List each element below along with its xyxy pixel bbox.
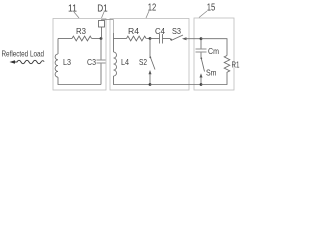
svg-text:L4: L4 — [121, 57, 129, 67]
capacitor C4 — [150, 38, 160, 40]
svg-text:Sm: Sm — [206, 67, 217, 77]
wire: box12 bottom — [114, 76, 151, 85]
wire to junction — [92, 38, 101, 40]
wire to junction — [146, 38, 150, 40]
node junction box15 bottom — [200, 83, 203, 86]
svg-text:S3: S3 — [172, 26, 181, 36]
resistor R4 — [127, 36, 147, 41]
box 15 — [194, 18, 234, 90]
diode D1 — [101, 27, 103, 39]
svg-text:C4: C4 — [155, 26, 165, 36]
wire: bottom link box12 to box15 — [150, 84, 201, 86]
leader 12 — [146, 11, 149, 18]
box 12 — [110, 19, 189, 91]
node junction box15 top — [200, 37, 203, 40]
svg-text:S2: S2 — [139, 57, 147, 67]
inductor L4 — [113, 39, 115, 53]
wire: box11 bottom — [58, 77, 101, 84]
leader 11 — [74, 12, 79, 18]
leader 15 — [199, 11, 207, 18]
wire: box15 top to R1 corner — [201, 39, 227, 56]
capacitor C3 — [100, 39, 102, 60]
node junction box11 — [100, 37, 103, 40]
wire: box15 bottom — [201, 72, 227, 85]
svg-text:15: 15 — [207, 2, 216, 13]
wire: box12 top wire — [114, 38, 127, 40]
switch S3 — [170, 39, 172, 41]
resistor R3 — [72, 36, 92, 41]
svg-text:R4: R4 — [128, 26, 139, 36]
svg-text:C3: C3 — [87, 57, 96, 67]
switch Sm — [200, 57, 202, 59]
resistor R1 — [224, 56, 230, 73]
reflected-wave arrow — [14, 60, 44, 63]
svg-text:11: 11 — [68, 3, 77, 14]
svg-text:L3: L3 — [63, 57, 71, 67]
svg-text:Cm: Cm — [208, 46, 219, 56]
wire: box11 top wire — [58, 38, 72, 40]
svg-text:D1: D1 — [97, 3, 108, 14]
box 11 — [53, 19, 106, 91]
svg-text:R3: R3 — [76, 26, 86, 36]
node junction bottom — [149, 83, 152, 86]
switch S2 — [149, 39, 151, 57]
inductor L3 — [55, 54, 58, 77]
leader D1 — [102, 12, 105, 18]
capacitor Cm — [200, 39, 202, 49]
node junction S2 top — [149, 37, 152, 40]
svg-text:Reflected Load: Reflected Load — [2, 49, 45, 59]
wire: box11 left vertical — [57, 39, 59, 55]
wire: top link box11 to box12 — [102, 19, 114, 21]
svg-text:R1: R1 — [232, 59, 240, 69]
